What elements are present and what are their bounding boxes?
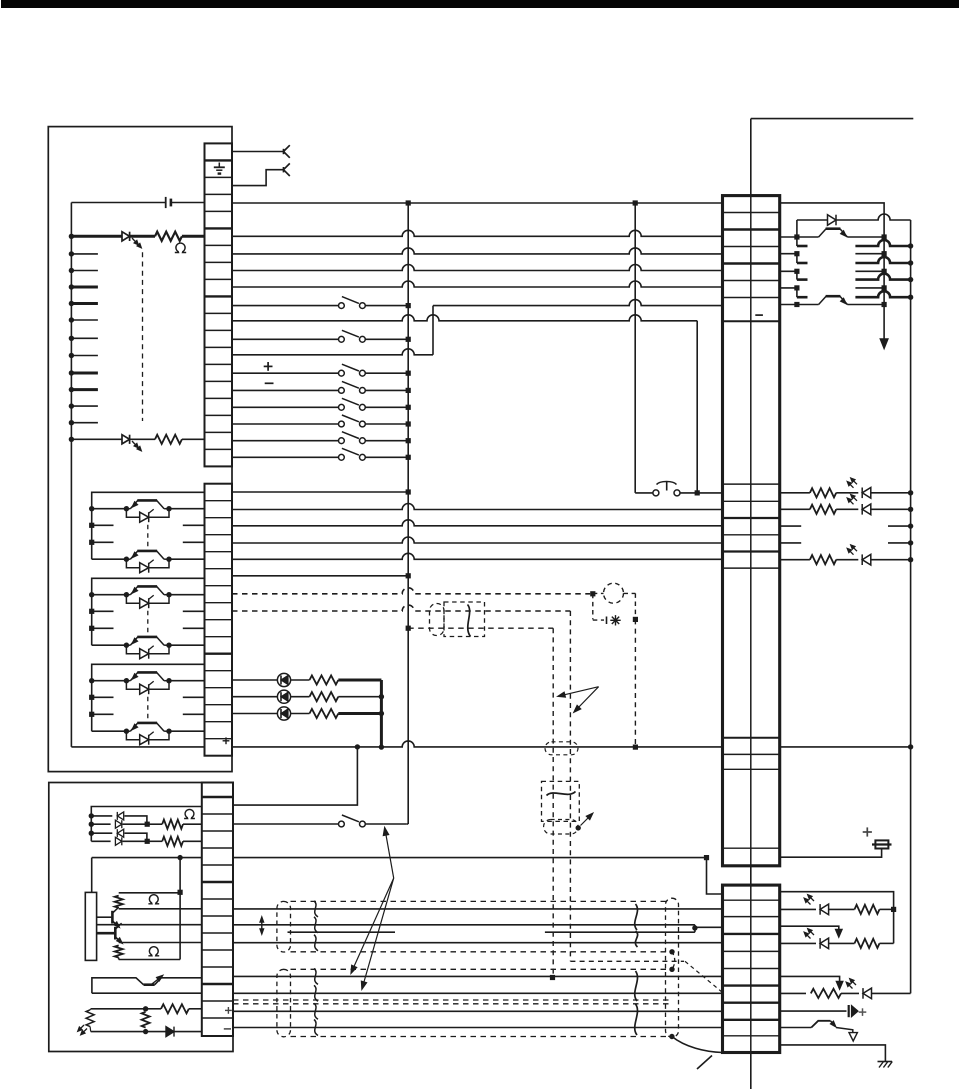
- array pigtail row 1: [796, 237, 798, 246]
- wire stub row y=356 from bus: [71, 355, 98, 357]
- relay block K3 SCR DK3b: [126, 731, 169, 740]
- line to transistor array (top): [780, 203, 884, 340]
- chassis ground symbol: [878, 1061, 893, 1063]
- bus V1 (x=408): [407, 203, 409, 824]
- switch SW8 line: [232, 456, 339, 458]
- wire drop right (to resistor top): [179, 858, 181, 960]
- photocoupler LED PC1: [277, 673, 290, 686]
- connector cable squiggle: [468, 605, 471, 637]
- indicator LED LD5: [820, 938, 829, 949]
- array output stub row 3 (thick): [855, 274, 910, 280]
- label minus (strip C): [755, 314, 763, 316]
- switch SW8: [339, 454, 345, 460]
- switch SW5 line: [232, 406, 339, 408]
- junction square dot LED pair: [891, 907, 896, 912]
- relay block K3 SCR DK3a: [126, 681, 169, 690]
- plus supply line (full width): [71, 746, 204, 748]
- transistor Q11: [114, 927, 117, 940]
- switch SW1: [339, 303, 345, 309]
- battery BT1 plus label: [863, 831, 872, 833]
- LED D2: [122, 435, 130, 444]
- dashed drop M2 (x=570): [569, 611, 571, 961]
- junction dot SW1-bus V1: [406, 303, 411, 308]
- line O4 to right strip: [232, 537, 723, 543]
- dashed wire motor to drop: [624, 592, 636, 594]
- dashed drop from motor node to plus line: [634, 619, 636, 747]
- wire drop left to sensor bar: [91, 858, 93, 893]
- resistor R7: [147, 840, 162, 842]
- cable squiggles at x=316: [314, 901, 318, 917]
- relay block K1 transistor QK1b row (bottom): [92, 558, 127, 560]
- indicator LED LD3: [862, 554, 871, 565]
- relay K1 output line O1: [232, 491, 408, 493]
- sensor bar (reed/transducer): [85, 892, 96, 960]
- wire stub row y=304 from bus: [71, 302, 98, 305]
- indicator LED LD4: [820, 904, 829, 915]
- junction square dot D5/D6: [145, 839, 150, 844]
- junction dot LD3/busR: [908, 557, 913, 562]
- array input row 2: [780, 253, 797, 255]
- black header bar: [1, 0, 959, 8]
- array pigtail row 2: [796, 254, 798, 263]
- harness line H4: [233, 975, 723, 977]
- return line with diode D7: [89, 1027, 92, 1032]
- indicator LED LD6 wire: [780, 992, 806, 994]
- signal line S6 (hops V1,riser,V2; turns down to pushbutton feed): [232, 315, 697, 321]
- wire stub row y=423 from bus: [71, 422, 98, 424]
- diode D4 row: [91, 823, 110, 825]
- relay block K1 stub row 1: [92, 524, 114, 526]
- varistor RV1 line: [91, 1008, 146, 1010]
- dashed inline connector (housing): [444, 602, 485, 637]
- indicator LED LD5 wire: [780, 942, 816, 944]
- junction dot plus/LED common A: [355, 744, 360, 749]
- resistor R4: [291, 696, 310, 698]
- transistor Q10: [111, 911, 114, 924]
- wire LED-common vertical (thick): [380, 680, 383, 747]
- stub row B: [780, 542, 802, 544]
- resistor for LD2: [810, 505, 836, 514]
- transistor Q21 row (bottom of array): [780, 304, 797, 306]
- thermal protector TH1: [92, 978, 144, 993]
- wire jack J2 lead: [232, 170, 284, 186]
- switch SW3 line: [232, 372, 339, 374]
- relay block K3 stub row 2: [92, 713, 114, 715]
- cable squiggles at x=638: [635, 904, 638, 930]
- label R6 ohms: [184, 809, 195, 818]
- wire R9 bottom to junction drop: [119, 959, 180, 961]
- ground symbol in strip A cell 2: [218, 163, 220, 168]
- thermal protector TH1 return wire: [92, 992, 202, 994]
- thermal contact symbol: [811, 1021, 830, 1028]
- junction square dot S-bend: [704, 855, 709, 860]
- relay block K3 dashed link: [147, 697, 149, 722]
- dashed cable jacket (upper): [277, 901, 291, 952]
- ground arrow (array common): [880, 339, 888, 349]
- top jumper wire: [751, 118, 914, 120]
- junction dot on bus at LED D1 row: [69, 234, 74, 239]
- junction dot plus/busR: [908, 744, 913, 749]
- junction square dot PB1/x697: [695, 490, 700, 495]
- dashed arc between pill dots: [672, 952, 675, 970]
- battery BT1 (cell w/ holder): [875, 840, 888, 848]
- enclosure box2 (lower-left unit): [49, 783, 233, 1052]
- junction square dot on plus line: [633, 745, 638, 750]
- leader arrow chain (pointer annotations): [385, 831, 393, 878]
- indicator LED LD3 wire: [780, 559, 810, 561]
- wire stub row y=338 from bus: [71, 337, 98, 339]
- mid line to strip: [97, 924, 202, 926]
- relay block K1 top wire: [92, 492, 205, 559]
- junction dot node P / bus V2: [633, 200, 638, 205]
- relay K2 output line O6: [232, 575, 408, 577]
- switch SW7: [339, 438, 345, 444]
- curved leader to strip corner: [672, 1037, 723, 1053]
- resistor R11 (vertical): [142, 1012, 150, 1028]
- indicator LED LD1: [862, 488, 871, 499]
- label plus (buzzer): [859, 1011, 867, 1013]
- signal line S3: [232, 265, 723, 271]
- resistor R3: [291, 679, 310, 681]
- relay block K3 stub row 1: [92, 696, 114, 698]
- signal line S2: [232, 248, 723, 254]
- LED LD1 arrows: [848, 483, 853, 488]
- pushbutton PB1 output wire: [680, 492, 723, 494]
- dashed line M2: [232, 605, 570, 611]
- wire internal bus of box1 (left rail): [70, 203, 72, 747]
- dashed cable jacket (lower): [277, 969, 291, 1037]
- power line P (top) left-strip to right-strip: [232, 202, 723, 204]
- jog joining H2/H2c: [694, 925, 696, 932]
- vertical trunk line through right strip: [750, 119, 752, 1089]
- jack J2 (open connector chevron): [284, 163, 290, 169]
- photocoupler LED PC2: [277, 690, 290, 703]
- harness line H1: [233, 908, 723, 910]
- wire jog to strip: [695, 926, 723, 928]
- resistor R8 (vertical): [119, 892, 180, 894]
- relay block K1 SCR DK1b: [126, 559, 169, 568]
- switch SW4 line: [232, 389, 339, 391]
- harness line H3: [233, 942, 723, 944]
- indicator LED LD1 wire: [780, 492, 810, 494]
- junction dot transformer tap with arrow: [576, 825, 581, 830]
- photocoupler LED PC3: [277, 707, 290, 720]
- label R8 ohms: [148, 895, 159, 904]
- label plus (strip B): [225, 1009, 232, 1011]
- switch SW4: [339, 388, 345, 394]
- dashed cable jacket pill (right, tall): [666, 898, 679, 1037]
- switch SW9 line (strip B): [233, 823, 339, 825]
- wire stub row y=406 from bus: [71, 405, 98, 407]
- array pigtail row 4: [796, 288, 798, 297]
- LED D2 emission arrows: [132, 441, 137, 447]
- capacitor C1: [165, 197, 167, 208]
- harness line H5: [233, 992, 723, 994]
- signal line S7 (to riser x=433): [232, 349, 433, 355]
- label R1 ohms: [175, 243, 186, 252]
- dashed reference line in box1: [142, 252, 144, 421]
- wire jack J1 lead: [232, 151, 284, 153]
- indicator LED LD2: [862, 504, 871, 515]
- signal line S5 right segment from riser: [433, 300, 723, 306]
- switch SW2 line: [232, 338, 339, 340]
- relay block K2 dashed link: [147, 611, 149, 636]
- buzzer BZ1: [848, 1005, 850, 1017]
- dashed drop M3 (x=553): [552, 628, 554, 977]
- relay block K3 top wire: [92, 664, 205, 731]
- switch SW1 line: [232, 305, 339, 307]
- signal line S1 (thick feed): [232, 230, 723, 236]
- relay block K3 transistor QK3b row (bottom): [92, 730, 127, 732]
- resistor R2: [129, 438, 155, 440]
- wire stub row y=373 from bus: [71, 372, 98, 375]
- array pigtail row 3: [796, 271, 798, 279]
- resistor for LD6: [811, 989, 841, 998]
- leader tail slash: [697, 1056, 712, 1070]
- resistor R9 (vertical): [115, 945, 123, 957]
- resistor R10: [146, 1008, 161, 1010]
- switch SW6 line: [232, 423, 339, 425]
- wire stub row y=254 from bus: [71, 253, 98, 255]
- battery BT1 wire to strip: [780, 849, 882, 858]
- feed wire to LED pair: [780, 892, 894, 944]
- LED D1: [122, 232, 130, 241]
- lamp L1 (bar + star): [606, 617, 608, 625]
- relay block K2 SCR DK2a: [126, 595, 169, 604]
- dashed line M3 from bus V1: [406, 626, 411, 631]
- line O3 to right strip: [232, 520, 723, 526]
- diode D8 line: [797, 214, 911, 220]
- array input row 4: [780, 287, 797, 289]
- switch SW6: [339, 421, 345, 427]
- connector entry triangle (open, down): [849, 1033, 857, 1041]
- wire drop to pushbutton (x=697): [696, 321, 698, 493]
- wire stub row y=287 from bus: [71, 286, 98, 289]
- indicator LED LD4 wire: [780, 908, 816, 910]
- wire stub row y=270 from bus: [71, 270, 98, 272]
- wire from plus line down into strip B: [233, 747, 357, 805]
- polarity label minus: [265, 382, 274, 384]
- resistor for LD5: [829, 942, 855, 944]
- dashed wire lamp branch: [592, 594, 594, 620]
- wire S-bend into strip C lower: [233, 857, 707, 859]
- switch SW2: [339, 336, 345, 342]
- dashed jog M2 to cable pill: [570, 960, 684, 962]
- dashed transformer pill: [544, 820, 578, 835]
- connector strip CN-C (right, upper segment): [723, 196, 780, 866]
- array output stub row 1 (thick): [855, 240, 910, 246]
- connector strip CN-A (left, upper segment): [205, 143, 233, 466]
- indicator LED LD6: [863, 988, 872, 999]
- line O5 to right strip: [232, 553, 723, 559]
- relay block K2 stub row 2: [92, 627, 114, 629]
- dashed leader to strip (upper): [685, 961, 723, 992]
- relay block K1 stub row 2: [92, 541, 114, 543]
- relay block K1 SCR DK1a: [126, 509, 169, 518]
- indicator LED LD2 wire: [780, 508, 810, 510]
- stub row A: [780, 525, 802, 527]
- cable squiggles lower at x=316: [314, 968, 318, 984]
- switch SW3: [339, 370, 345, 376]
- leader arrows to dashed drops: [560, 687, 599, 696]
- LED LD2 arrows: [848, 499, 853, 504]
- connector strip CN-A lower segment: [205, 484, 233, 756]
- junction dots on pill: [669, 949, 674, 954]
- pointer line with down arrow 2: [780, 976, 840, 981]
- enclosure box (upper-left unit): [48, 127, 232, 772]
- relay block K2 top wire: [92, 578, 205, 645]
- relay block K1 transistor QK1a row: [92, 508, 127, 510]
- relay block K2 SCR DK2b: [126, 645, 169, 654]
- junction square dot D3/D4: [145, 822, 150, 827]
- label plus (strip A): [223, 740, 230, 742]
- photocoupler LED PC3 row wire: [232, 713, 278, 715]
- relay block K1 dashed link: [147, 525, 149, 550]
- jack J1 (open connector chevron): [284, 145, 290, 151]
- dashed wire to motor: [593, 592, 604, 594]
- resistor R1 (thick line): [129, 235, 155, 238]
- resistor R5: [291, 713, 310, 715]
- twisted-pair mark (double arrow): [261, 918, 263, 934]
- buzzer BZ1 wire: [780, 1010, 847, 1012]
- switch SW9: [339, 821, 345, 827]
- wire stub row y=320 from bus: [71, 319, 98, 321]
- switch SW7 line: [232, 440, 339, 442]
- harness line H2c (short): [545, 931, 695, 933]
- connector strip CN-C lower segment: [723, 885, 780, 1052]
- diode D3 row: [91, 815, 112, 817]
- resistor for LD1: [810, 488, 836, 497]
- connector strip CN-B (left-bottom): [202, 783, 233, 1037]
- diode network top wire: [91, 807, 202, 842]
- relay block K2 transistor QK2a row: [92, 594, 127, 596]
- dashed inline connector (pill): [430, 604, 445, 636]
- LED D1 feed wire (thick): [71, 235, 122, 238]
- switch SW5: [339, 404, 345, 410]
- varistor RV1 (vertical, light sensitive): [86, 1010, 94, 1027]
- ground wire: [780, 1045, 886, 1062]
- capacitor C1 wire: [71, 202, 165, 204]
- diode D7: [166, 1027, 174, 1037]
- cable squiggles lower at x=638: [635, 971, 638, 1001]
- LED D2 feed wire: [71, 438, 122, 440]
- line from R8 bottom to strip: [119, 908, 202, 910]
- bus V1 bottom corner: [407, 823, 408, 825]
- relay block K2 transistor QK2b row (bottom): [92, 644, 127, 646]
- harness line H2 (ends at jog): [233, 924, 695, 926]
- junction square dot M3 on line: [550, 975, 555, 980]
- pointer line with down arrow 1: [780, 926, 839, 929]
- resistor for LD3: [810, 555, 836, 564]
- array input row 3: [780, 270, 797, 272]
- junction dot LD2/busR: [908, 507, 913, 512]
- resistor R6: [147, 823, 162, 825]
- thermal contact line: [780, 1027, 812, 1029]
- junction dot lower jacket: [669, 1034, 674, 1039]
- pushbutton PB1: [653, 490, 659, 496]
- transistor Q11 stub (thick): [97, 932, 115, 935]
- diode D5 row: [91, 832, 112, 834]
- label minus (strip B): [224, 1028, 231, 1030]
- resistor for LD4: [829, 908, 855, 910]
- sense line with junction: [92, 857, 202, 859]
- relay block K2 stub row 1: [92, 610, 114, 612]
- transistor Q20 row: [780, 236, 797, 238]
- bus V2 (x=635): [634, 203, 636, 493]
- LED D1 emission arrows: [132, 238, 137, 244]
- bus VR (right outer): [910, 246, 912, 993]
- harness dashed pair: [233, 999, 671, 1001]
- junction dot LD1/busR: [908, 490, 913, 495]
- dashed pill on plus line (cable pass-through): [545, 742, 578, 755]
- wire riser x=433: [432, 306, 434, 355]
- relay block K3 transistor QK3a row: [92, 680, 127, 682]
- transformer coil squiggle: [547, 792, 576, 796]
- array output stub row 4 (thick): [855, 291, 910, 297]
- emitter line to strip: [119, 942, 202, 944]
- harness line H7: [233, 1027, 723, 1029]
- pushbutton PB1 feed from V2: [635, 492, 653, 494]
- LED LD3 arrows: [848, 550, 853, 555]
- junction square dot lamp-motor: [633, 617, 638, 622]
- diode D6 row: [91, 840, 110, 842]
- transistor Q10 stub: [97, 916, 112, 918]
- array output stub row 2 (thick): [855, 257, 910, 263]
- photocoupler LED PC1 row wire: [232, 679, 278, 681]
- line O2 to right strip: [232, 504, 723, 510]
- polarity label plus: [264, 365, 273, 367]
- junction square dot at resistor feed: [178, 890, 183, 895]
- harness line H2b (short): [288, 931, 396, 933]
- junction square dot M1: [590, 591, 595, 596]
- junction dot node P / bus V1: [406, 200, 411, 205]
- signal line S4: [232, 281, 723, 287]
- varistor arrows: [79, 1025, 84, 1030]
- motor M (dashed circle): [604, 583, 624, 603]
- dashed line M1 (to motor): [232, 588, 590, 594]
- diode D8: [828, 215, 837, 226]
- label R9 ohms: [148, 947, 159, 956]
- harness line H6: [233, 1010, 723, 1012]
- wire stub row y=390 from bus: [71, 388, 98, 391]
- dashed transformer housing: [542, 781, 580, 821]
- photocoupler LED PC2 row wire: [232, 696, 278, 698]
